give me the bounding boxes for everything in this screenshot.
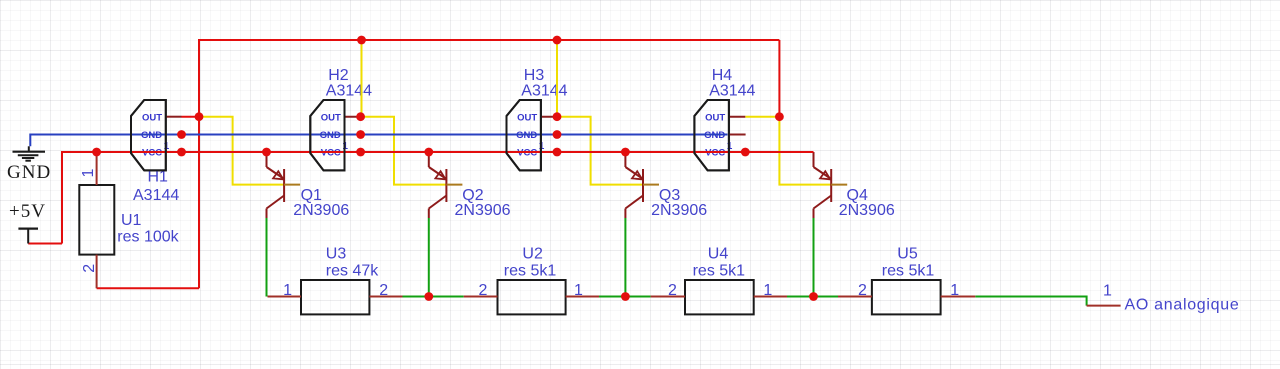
transistor Q3 [625, 152, 707, 219]
wire green Q3 collector [624, 218, 626, 297]
junction H3 GND [553, 130, 562, 139]
svg-text:U2: U2 [522, 246, 543, 263]
svg-text:OUT: OUT [321, 112, 341, 123]
svg-text:2: 2 [479, 282, 488, 299]
transistor Q2 [429, 152, 511, 219]
resistor U3 [268, 246, 403, 315]
svg-text:1: 1 [763, 282, 772, 299]
wire top +5V bus [199, 40, 779, 288]
svg-text:1: 1 [1103, 283, 1112, 300]
svg-text:A3144: A3144 [709, 82, 755, 99]
wire green Q1 collector [266, 218, 268, 297]
power +5V symbol [18, 229, 38, 244]
svg-text:U1: U1 [121, 212, 142, 229]
wire green Q2 collector [428, 218, 430, 297]
svg-text:2: 2 [668, 282, 677, 299]
svg-text:OUT: OUT [142, 112, 162, 123]
node GND label [7, 162, 51, 183]
ground [13, 146, 46, 160]
svg-text:GND: GND [7, 162, 51, 183]
junction Q3 collector row [621, 292, 630, 301]
junction U1 pin1 / VCC [92, 148, 101, 157]
svg-text:res 5k1: res 5k1 [693, 262, 746, 279]
wire green U5 to output [975, 297, 1086, 306]
svg-text:GND: GND [141, 130, 162, 141]
svg-text:2N3906: 2N3906 [455, 202, 511, 219]
junction H3 VCC [553, 148, 562, 157]
wire green U3 to U2 [403, 296, 464, 298]
node AO analogique label [1103, 283, 1240, 314]
svg-text:res 47k: res 47k [326, 262, 379, 279]
svg-text:A3144: A3144 [521, 82, 567, 99]
transistor Q1 [267, 152, 350, 219]
svg-text:A3144: A3144 [133, 187, 179, 204]
svg-text:GND: GND [704, 130, 725, 141]
svg-text:U5: U5 [897, 246, 918, 263]
hall sensor H4 body outline [694, 100, 729, 170]
svg-text:+5V: +5V [9, 201, 46, 222]
svg-text:1: 1 [950, 282, 959, 299]
junction H2 GND [356, 130, 365, 139]
junction H4 VCC [741, 148, 750, 157]
hall sensor H4 [694, 67, 755, 170]
junction H1 OUT / bus [195, 112, 204, 121]
wire GND net blue [30, 135, 727, 147]
wire output stub [1087, 305, 1121, 307]
wire H1 OUT to bus [182, 116, 200, 118]
node +5V label [9, 201, 46, 222]
wire yellow H3 riser overlay [556, 40, 558, 117]
svg-text:2N3906: 2N3906 [293, 202, 349, 219]
svg-text:1: 1 [283, 282, 292, 299]
wire green U4 to U5 [787, 296, 838, 298]
wire yellow H2 riser [361, 40, 363, 117]
wire +5V stub [28, 243, 62, 245]
svg-text:2N3906: 2N3906 [651, 202, 707, 219]
svg-text:2: 2 [379, 282, 388, 299]
resistor U4 [651, 246, 787, 315]
svg-text:U3: U3 [326, 246, 347, 263]
wire VCC rail [62, 152, 814, 244]
transistor Q4 [814, 152, 895, 219]
resistor U1 [79, 152, 179, 288]
svg-text:GND: GND [516, 130, 537, 141]
svg-text:res 5k1: res 5k1 [504, 262, 557, 279]
junction H4 OUT [775, 112, 784, 121]
junction H2 OUT [356, 112, 365, 121]
hall sensor H1 [131, 100, 182, 204]
svg-text:A3144: A3144 [326, 82, 372, 99]
wire yellow H4 out to Q4 base [745, 117, 831, 185]
wire yellow H3 riser [556, 40, 558, 117]
svg-text:U4: U4 [708, 246, 729, 263]
junction Q2 collector row [424, 292, 433, 301]
junction Q3 emitter [621, 148, 630, 157]
junction H1 GND [177, 130, 186, 139]
svg-text:OUT: OUT [705, 112, 725, 123]
wire yellow H2 riser overlay [361, 40, 363, 117]
svg-text:GND: GND [320, 130, 341, 141]
svg-text:1: 1 [574, 282, 583, 299]
resistor U5 [838, 246, 975, 315]
hall sensor H3 [507, 67, 568, 170]
wire green Q4 collector [813, 218, 815, 297]
svg-text:OUT: OUT [517, 112, 537, 123]
svg-text:AO analogique: AO analogique [1125, 297, 1240, 314]
junction Q4 collector row [809, 292, 818, 301]
wire yellow H3 out to Q3 base [557, 117, 643, 185]
wire U1 pin2 to bus [97, 287, 199, 289]
junction H3 OUT [553, 112, 562, 121]
junction Q2 emitter [424, 148, 433, 157]
wire GND rail overlay [30, 134, 727, 136]
svg-text:2N3906: 2N3906 [839, 202, 895, 219]
wire VCC rail overlay [62, 151, 814, 153]
wire yellow H2 out to Q2 base [361, 117, 447, 185]
svg-text:2: 2 [81, 264, 98, 273]
hall sensor H2 [310, 67, 372, 170]
junction H2 riser top [357, 36, 366, 45]
resistor U2 [464, 246, 599, 315]
svg-text:1: 1 [80, 168, 97, 177]
hall sensor H3 body outline [507, 100, 541, 170]
wire green U2 to U4 [599, 296, 651, 298]
hall sensor H1 body outline [131, 100, 166, 170]
svg-text:res 100k: res 100k [117, 228, 179, 245]
svg-text:2: 2 [858, 282, 867, 299]
junction H1 VCC [177, 148, 186, 157]
junction H2 VCC [356, 148, 365, 157]
junction H3 riser top [553, 36, 562, 45]
hall sensor H2 body outline [310, 100, 344, 170]
svg-text:res 5k1: res 5k1 [882, 262, 935, 279]
wire yellow H1 out to Q1 base [199, 117, 284, 185]
junction Q1 emitter [262, 148, 271, 157]
wire H4 OUT drop [778, 40, 780, 117]
